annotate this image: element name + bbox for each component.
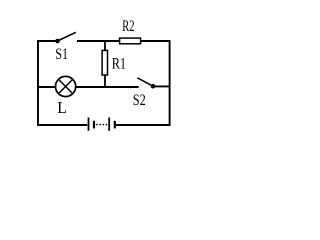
wire top-right segment — [141, 40, 171, 42]
wire top-middle segment — [77, 40, 120, 42]
switch S1 — [55, 32, 76, 43]
battery cell plate short 2 — [114, 121, 116, 129]
wire middle segment lamp to S2 — [75, 86, 138, 88]
wire R1 bottom stub — [104, 75, 106, 88]
wire bottom-left segment — [37, 124, 87, 126]
resistor R1 — [102, 50, 107, 75]
svg-text:R2: R2 — [122, 18, 134, 35]
wire right vertical — [169, 40, 171, 126]
resistor R2 — [120, 38, 141, 44]
lamp L — [56, 76, 76, 96]
svg-text:L: L — [57, 98, 67, 117]
svg-text:S2: S2 — [133, 92, 146, 109]
svg-text:S1: S1 — [55, 46, 68, 63]
battery cell plate long 1 — [88, 118, 90, 131]
wire middle-left segment — [37, 86, 56, 88]
node A junction R1 top stub — [104, 41, 106, 51]
battery cell plate short 1 — [93, 121, 95, 129]
wire left vertical — [37, 40, 39, 126]
switch S2 — [137, 78, 155, 89]
wire middle-right segment — [153, 85, 171, 87]
battery dots — [96, 124, 107, 126]
svg-text:R1: R1 — [112, 56, 126, 73]
wire bottom-right segment — [116, 124, 171, 126]
wire top-left segment — [37, 40, 57, 42]
battery cell plate long 2 — [108, 118, 110, 131]
